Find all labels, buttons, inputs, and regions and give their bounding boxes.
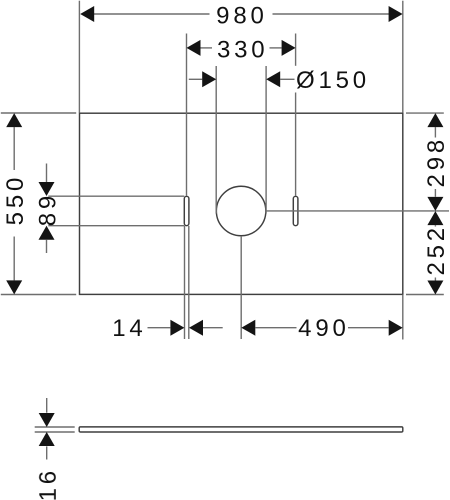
svg-text:330: 330 — [217, 36, 268, 63]
svg-text:14: 14 — [112, 315, 146, 342]
svg-text:89: 89 — [35, 192, 62, 226]
svg-text:16: 16 — [35, 467, 62, 500]
svg-text:550: 550 — [2, 174, 29, 225]
svg-text:252: 252 — [423, 224, 450, 275]
svg-text:Ø150: Ø150 — [296, 67, 370, 94]
svg-text:490: 490 — [298, 315, 349, 342]
svg-text:980: 980 — [216, 2, 267, 29]
svg-text:298: 298 — [423, 136, 450, 187]
